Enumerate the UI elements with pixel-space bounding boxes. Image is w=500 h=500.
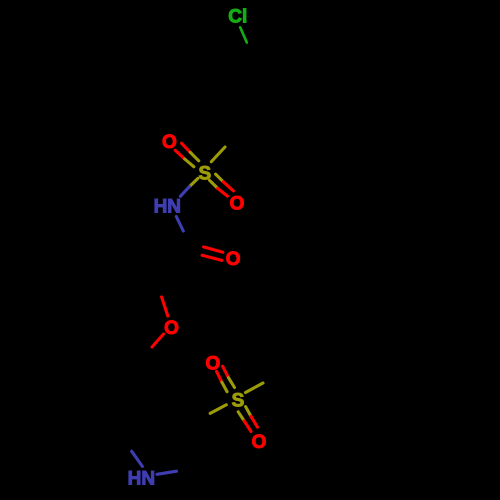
svg-text:HN: HN (154, 197, 181, 218)
svg-text:Cl: Cl (228, 6, 247, 27)
svg-text:O: O (226, 249, 241, 270)
svg-text:O: O (230, 193, 245, 214)
svg-text:HN: HN (128, 468, 155, 489)
svg-text:O: O (252, 432, 267, 453)
svg-text:S: S (232, 390, 245, 411)
svg-text:O: O (164, 318, 179, 339)
svg-text:O: O (162, 132, 177, 153)
svg-text:O: O (206, 353, 221, 374)
svg-text:S: S (198, 163, 211, 184)
